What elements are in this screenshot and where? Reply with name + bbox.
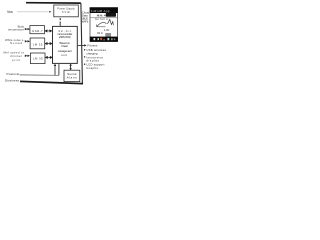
svg-text:Dizziness: Dizziness [5,78,20,82]
svg-text:5 V dc: 5 V dc [62,10,71,14]
svg-text:04 C: 04 C [97,31,103,35]
svg-text:Nomad: Nomad [10,41,22,45]
svg-text:GSR-7: GSR-7 [32,29,43,33]
svg-text:(ARM M4): (ARM M4) [59,35,71,39]
svg-text:Power: Power [61,44,68,48]
svg-text:LM 35: LM 35 [33,56,43,60]
svg-text:print: print [12,58,20,62]
svg-text:temperature: temperature [8,28,24,32]
svg-text:unit: unit [61,53,67,57]
svg-text:WiFi): WiFi) [82,19,89,23]
svg-text:LM 35: LM 35 [33,43,43,47]
svg-text:Fitness: Fitness [87,44,98,48]
svg-text:1.8c: 1.8c [104,28,110,32]
svg-text:Vus: Vus [7,10,13,14]
svg-text:No fall d.: No fall d. [95,18,109,21]
svg-text:Alarm: Alarm [67,76,78,80]
svg-text:Postural: Postural [7,72,20,76]
svg-text:Graphs: Graphs [86,66,98,70]
svg-text:HH:4: HH:4 [97,13,106,17]
